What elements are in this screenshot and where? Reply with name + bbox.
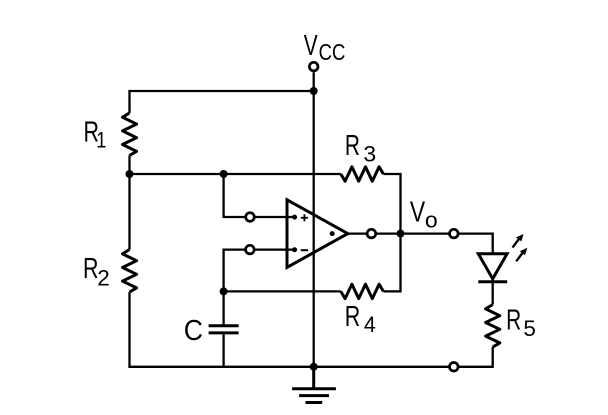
wire R3 right lead and drop to output node [383,174,400,234]
junction dot feedback node [220,287,228,295]
junction dot divider node [126,170,134,178]
wire top rail from R1 top corner to Vcc node [130,91,314,113]
wire op-amp output to Vo rail and LED top lead [348,234,493,254]
terminal circle minus input [246,245,255,254]
LED arrow 2 [516,253,522,261]
svg-text:3: 3 [363,141,376,167]
wire minus-input circle to op-amp pin [255,248,295,250]
wire divider rail to R3 [130,173,341,175]
svg-text:R: R [506,304,521,336]
terminal circle Vo [450,229,459,238]
resistor R3 [341,167,384,181]
wire plus-input circle to op-amp pin [255,216,295,218]
wire LED to R5 [492,279,494,305]
terminal circle bottom [450,363,459,372]
ground [292,367,336,403]
junction dot ground node [310,363,318,371]
svg-text:2: 2 [97,266,110,291]
pin dot minus input [292,247,297,252]
svg-text:1: 1 [96,128,106,153]
junction dot Vcc node [310,87,318,95]
op-amp minus sign [301,249,308,251]
LED D1 triangle [478,254,507,279]
LED arrow 1 [513,239,519,247]
junction dot output node [397,230,405,238]
wire R2 bottom lead, bottom rail, R5 bottom lead [130,292,493,367]
svg-text:V: V [304,30,318,62]
resistor R1 [123,113,137,156]
capacitor C [209,326,239,333]
wire capacitor bottom lead [222,334,224,367]
resistor R4 [341,284,384,298]
svg-text:5: 5 [523,316,536,341]
op-amp plus sign [301,214,308,221]
resistor R2 [123,250,137,293]
wire R4 right lead and rise to output node [383,234,400,292]
pin dot plus input [292,215,297,220]
svg-text:4: 4 [364,311,376,337]
wire R1 bottom lead to divider node [128,156,130,175]
LED arrow 1 head [516,234,524,241]
pin dot output [330,231,335,236]
svg-text:R: R [345,301,360,333]
svg-text:V: V [410,195,426,228]
wire feedback rail to R4 [224,290,341,292]
svg-text:R: R [83,253,98,285]
LED arrow 2 head [520,248,528,255]
LED cathode bar [478,280,507,283]
wire R2 top lead [128,174,130,250]
wire Vcc vertical main line down to ground node [313,72,315,367]
junction dot plus branch node [220,170,228,178]
svg-text:o: o [425,208,438,232]
terminal circle Vcc [309,62,318,71]
svg-text:CC: CC [319,40,346,66]
op-amp U1 [287,200,348,268]
wire capacitor top lead [222,291,224,324]
resistor R5 [486,305,500,348]
wire minus-input to terminal circle [224,250,245,292]
svg-text:C: C [184,314,203,346]
terminal circle plus input [246,213,255,222]
terminal circle op-amp output [367,229,376,238]
wire plus-input branch from divider node to terminal circle [224,174,245,217]
svg-text:R: R [345,130,360,162]
